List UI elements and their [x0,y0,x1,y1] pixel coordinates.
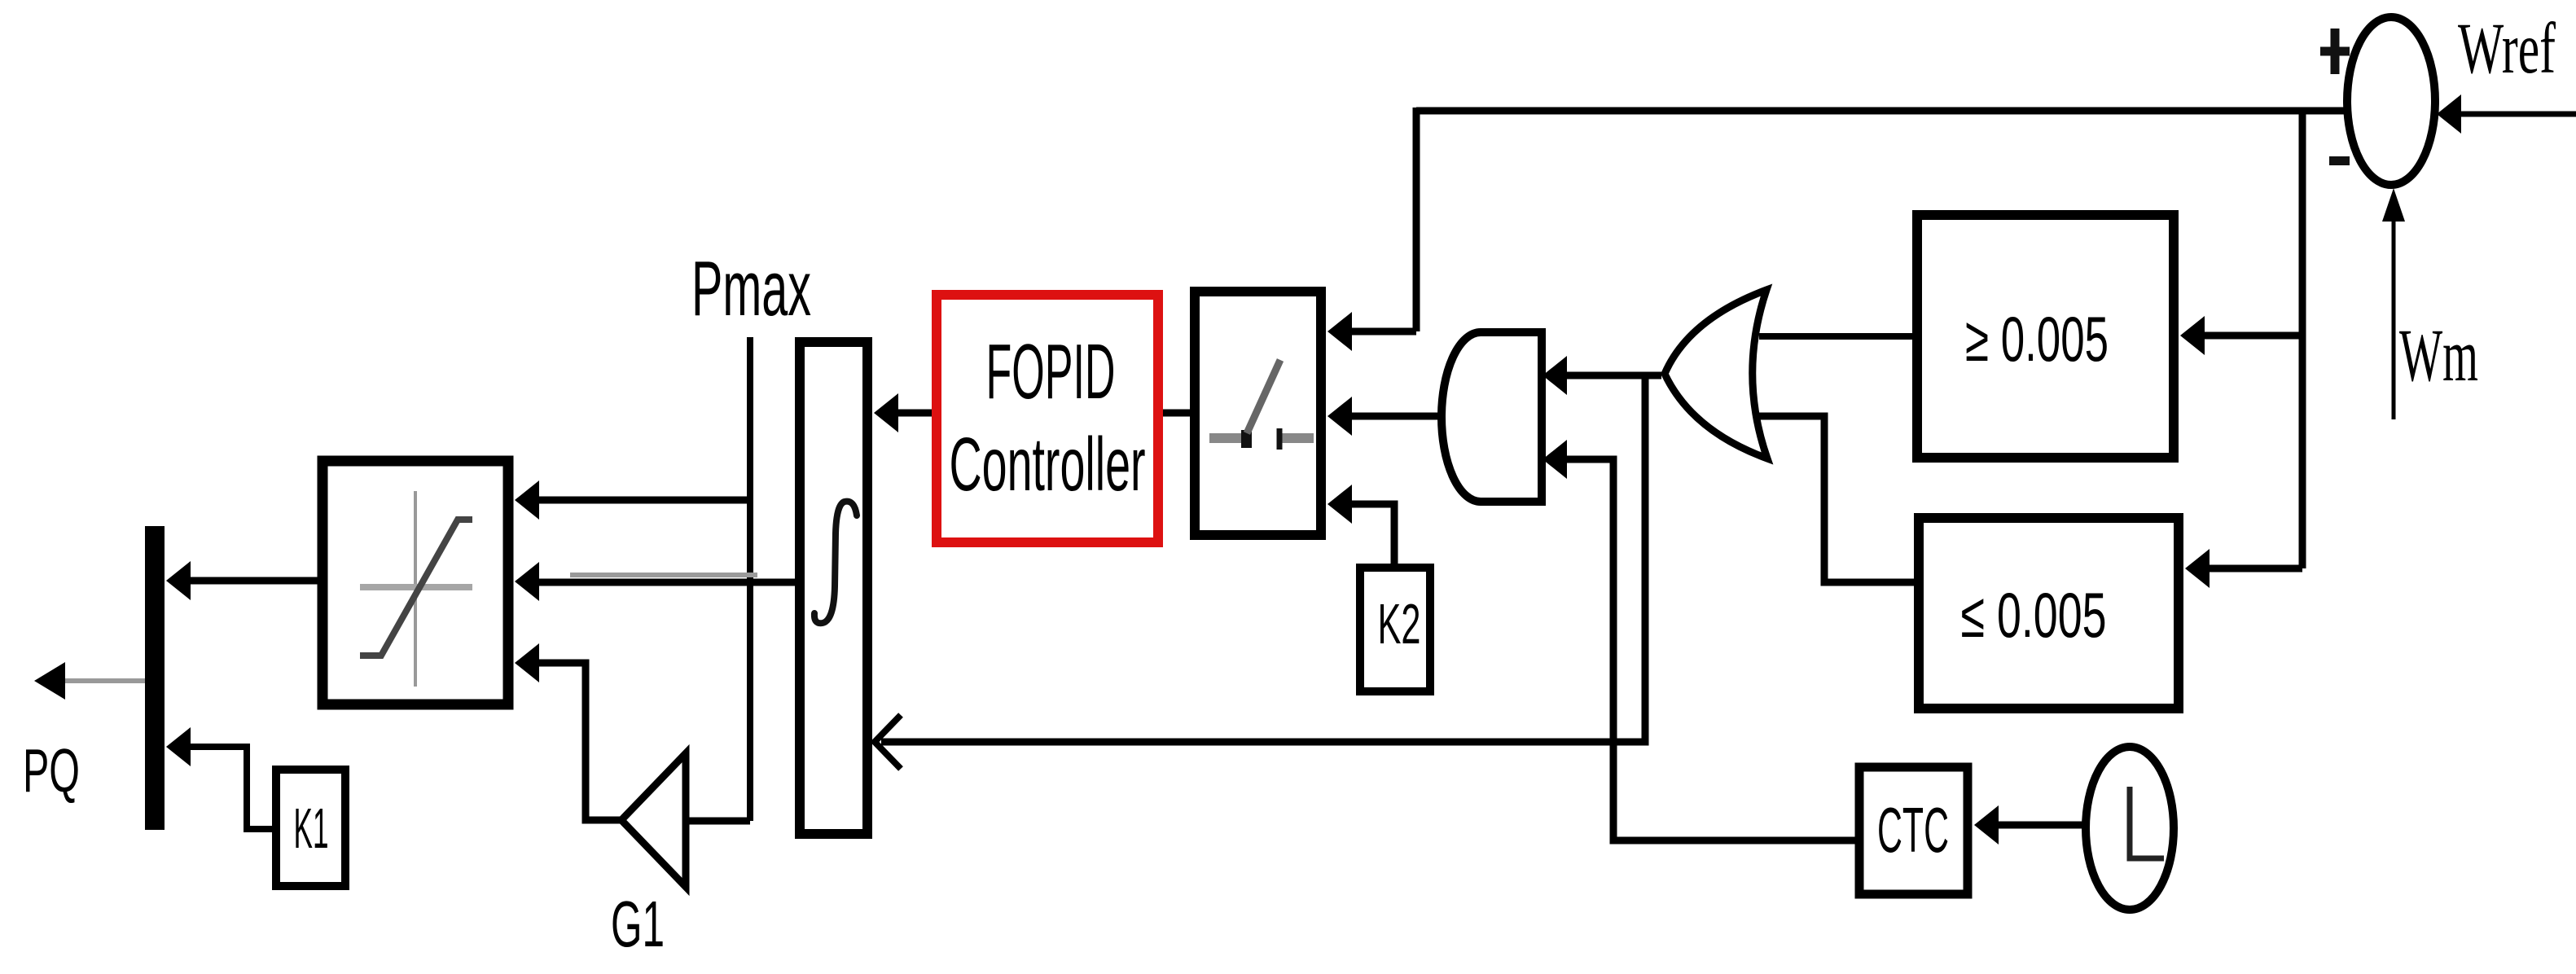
svg-text:G1: G1 [611,888,665,960]
svg-text:Wm: Wm [2399,314,2478,397]
svg-text:K1: K1 [294,796,329,860]
svg-text:Wref: Wref [2458,9,2556,89]
svg-text:FOPID: FOPID [986,328,1116,415]
svg-text:≤ 0.005: ≤ 0.005 [1961,579,2107,651]
svg-text:≥ 0.005: ≥ 0.005 [1965,303,2109,375]
svg-text:CTC: CTC [1877,794,1949,866]
svg-text:Pmax: Pmax [691,245,811,332]
svg-text:Controller: Controller [950,422,1146,507]
svg-text:K2: K2 [1378,592,1421,656]
svg-text:PQ: PQ [23,736,80,805]
